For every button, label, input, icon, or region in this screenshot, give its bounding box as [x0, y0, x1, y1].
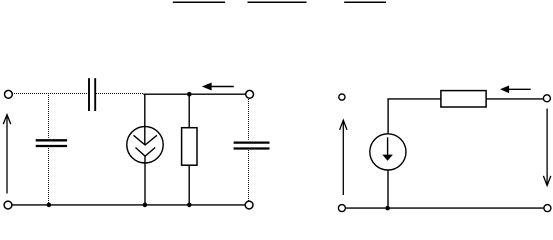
terminal: right circuit port1 bottom (open circle): [338, 205, 345, 212]
wire: left shunt branch dotted upper (to capacitor C2): [48, 95, 50, 138]
terminal: right circuit port2 top (open circle): [543, 95, 550, 102]
resistor R2 (horizontal box): [441, 91, 486, 107]
voltage arrow V2 (down, right of port2): [543, 109, 550, 186]
capacitor C3 (right shunt, horizontal plates): [234, 143, 270, 149]
terminal: port2 top (open circle): [246, 90, 254, 98]
wire: current source I2 bottom stem: [387, 170, 389, 208]
voltage arrow V1 (up, right circuit input): [340, 120, 347, 195]
fraction bar 1 (equation cut off at top): [173, 1, 225, 3]
wire: top rail dotted segment (port1 to capacitor C1): [12, 93, 87, 95]
terminal: port1 top (open circle): [4, 90, 12, 98]
terminal: port2 bottom (open circle): [245, 201, 253, 209]
current source I1 lower chevron: [136, 148, 156, 157]
junction: left shunt / bottom rail: [47, 203, 52, 208]
wire: top rail left segment (current source to resistor R2): [387, 98, 441, 100]
wire: right shunt branch dotted lower (capacitor C3 to port2 bottom): [248, 150, 250, 201]
wire: resistor R1 bottom stem: [188, 165, 190, 205]
terminal: port1 bottom (open circle): [4, 201, 12, 209]
wire: resistor R1 top stem: [188, 94, 190, 128]
wire: current source I1 bottom stem: [144, 156, 146, 205]
fraction bar 2 (equation cut off at top): [248, 1, 307, 3]
current arrow (left-pointing, above top rail right): [500, 85, 531, 93]
wire: bottom rail (port1 bottom to port2 bottom): [12, 204, 246, 206]
current source I1 upper chevron: [134, 135, 157, 145]
wire: top rail solid segment (node A to port2 top): [143, 93, 246, 95]
current source I1 (circle): [127, 127, 163, 163]
wire: left shunt branch dotted lower (capacitor C2 to bottom rail): [48, 148, 50, 204]
voltage arrow V1 (up, left of port1): [3, 115, 11, 194]
wire: top rail right segment (resistor R2 to port2 top): [486, 98, 543, 100]
terminal: right circuit port1 top (isolated open circle): [339, 94, 345, 100]
current source I2 (circle with down arrow): [370, 134, 406, 170]
junction: resistor R1 / top rail: [187, 92, 192, 97]
current arrow I2' (left-pointing, above top rail right): [202, 83, 234, 91]
terminal: right circuit port2 bottom (open circle): [544, 205, 551, 212]
junction: resistor R1 / bottom rail: [187, 203, 192, 208]
resistor R1 (vertical box): [182, 128, 197, 166]
wire: top rail dotted segment (capacitor C1 to node A): [96, 93, 143, 95]
capacitor C1 (series, vertical plates): [89, 78, 95, 111]
wire: right circuit bottom rail: [346, 207, 544, 209]
wire: stem from top rail into current source I1: [144, 94, 146, 145]
junction: current source I2 / bottom rail: [385, 206, 390, 211]
wire: current source I2 top stem: [387, 99, 389, 134]
junction: current source / bottom rail: [143, 203, 148, 208]
wire: right shunt branch dotted upper (port2 top to capacitor C3): [248, 99, 250, 140]
fraction bar 3 (equation cut off at top): [344, 1, 386, 3]
capacitor C2 (left shunt, horizontal plates): [36, 140, 67, 146]
